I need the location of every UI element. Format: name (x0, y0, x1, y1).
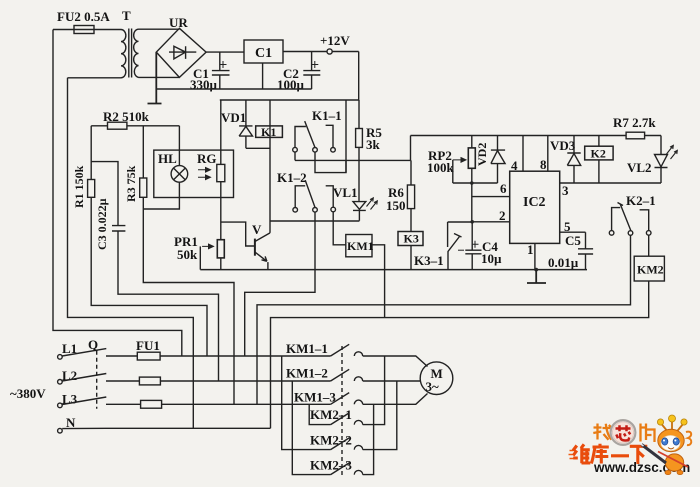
svg-text:HL: HL (158, 151, 177, 166)
wire top left to fuse (53, 29, 121, 31)
contact K1-2 (295, 180, 333, 207)
svg-text:4: 4 (511, 158, 518, 173)
svg-text:VL1: VL1 (333, 185, 358, 200)
wire left rail B (primary to N) (68, 78, 194, 429)
svg-text:KM1–2: KM1–2 (286, 366, 328, 381)
svg-text:100µ: 100µ (277, 77, 305, 92)
svg-text:T: T (122, 8, 131, 23)
svg-text:330µ: 330µ (190, 77, 218, 92)
resistor R2 (91, 125, 179, 127)
relay coil K3 (398, 232, 423, 246)
svg-text:~380V: ~380V (10, 386, 46, 401)
wire L3 to KM2-1 (309, 404, 330, 424)
relay coil K2 (598, 136, 600, 184)
svg-text:VD2: VD2 (475, 143, 489, 166)
regulator C1 box (244, 40, 283, 63)
diode VD2 (491, 136, 505, 184)
chars weikuyixia (red-orange) (573, 444, 647, 464)
wire primary bottom to rail B (68, 77, 122, 79)
wire L1 to KM2-2 (282, 356, 331, 450)
transformer T secondary winding (134, 29, 139, 77)
wire riser to timer rail (410, 136, 412, 161)
wire relay +12 rail (220, 99, 359, 101)
wire KM1-1 to motor (363, 356, 428, 367)
wire KM2 bottom elbow to N (271, 281, 649, 428)
svg-text:VD3: VD3 (550, 138, 576, 153)
light arrows to RG (198, 168, 211, 180)
svg-text:C3 0.022µ: C3 0.022µ (95, 198, 109, 250)
svg-text:KM1: KM1 (347, 239, 374, 253)
svg-text:50k: 50k (177, 247, 198, 262)
wire KM1-2 to motor (363, 380, 421, 382)
wire KM2-2 riser to KM1-2 (363, 381, 397, 450)
svg-text:RG: RG (197, 151, 217, 166)
wire timing column (471, 183, 473, 222)
potentiometer PR1 (217, 240, 224, 258)
svg-text:C1: C1 (255, 46, 272, 61)
fuse FU1-2 (139, 377, 160, 385)
wire PR1 wiper to ground rail (199, 246, 201, 269)
wire power supply bottom rail (156, 88, 311, 90)
photoresistor RG (217, 164, 225, 181)
svg-text:3~: 3~ (426, 379, 440, 394)
switch Q blade L2 (62, 374, 106, 382)
wire lamp top to R2 line (178, 126, 180, 166)
wire K1-1 left stub (294, 152, 296, 160)
resistor R7 (626, 132, 645, 139)
contactor coil KM1 (346, 235, 372, 257)
contact KM1-3 (331, 393, 363, 405)
wire RG/PR1 junction to base (221, 222, 255, 246)
box HL RG (154, 150, 234, 197)
link KM1 (dashed) (341, 346, 343, 406)
contactor coil KM2 (634, 256, 664, 281)
contact KM2-3 (331, 463, 363, 475)
transformer T primary winding (121, 30, 126, 78)
svg-text:K3–1: K3–1 (414, 253, 444, 268)
switch Q blade L3 (62, 397, 106, 405)
contact K2-1 (612, 203, 649, 232)
wire K2-1 mid elbow to L3 (257, 235, 631, 404)
svg-text:FU2 0.5A: FU2 0.5A (57, 9, 110, 24)
svg-text:R3 75k: R3 75k (124, 165, 138, 202)
wire L3 line (106, 403, 331, 405)
wire C3 top tap (91, 162, 118, 226)
diode VD3 (567, 136, 580, 184)
contact KM2-1 (331, 413, 363, 425)
node junction pin2/C4 (470, 220, 474, 224)
wire L2 to KM2-3 (292, 381, 330, 475)
wire K1-2 mid elbow to L1 (245, 212, 315, 356)
VL2 light arrows (667, 145, 678, 159)
svg-text:3: 3 (562, 183, 569, 198)
wire R2 left down to R1 (90, 126, 92, 180)
bridge rectifier UR (156, 28, 206, 77)
node junction RP2 bottom (470, 181, 474, 185)
wire KM1-3 to motor (363, 394, 428, 405)
transformer T core (129, 29, 132, 78)
wire rail to jog riser (345, 100, 347, 173)
svg-text:K3: K3 (404, 232, 419, 246)
contact KM1-2 (331, 369, 363, 381)
lamp HL (171, 166, 188, 183)
wire control ground rail (200, 269, 587, 271)
svg-text:KM2: KM2 (637, 263, 664, 277)
svg-text:K1: K1 (261, 125, 276, 139)
capacitor C3 0.022u (112, 226, 125, 231)
svg-text:K1–2: K1–2 (277, 170, 307, 185)
resistor R6 150 (410, 160, 412, 185)
wire KM2-1 riser to KM1-1 (363, 356, 385, 425)
wire VL1 cathode to collector (270, 220, 359, 222)
wire secondary bottom to bridge (139, 76, 180, 78)
wire R6 to K3 (410, 209, 412, 232)
svg-text:100k: 100k (427, 160, 455, 175)
wire KM1 right to N elbow (372, 245, 385, 318)
svg-text:1: 1 (527, 242, 534, 257)
wire secondary top to bridge (139, 28, 180, 30)
wire K1-1 mid jog (315, 152, 346, 173)
svg-text:R7 2.7k: R7 2.7k (613, 115, 656, 130)
link KM2 (dashed) (341, 415, 343, 476)
fuse FU1-1 (137, 352, 160, 360)
wire L1 line (106, 355, 331, 357)
contact KM2-2 (331, 438, 363, 450)
wire R3 bottom elbow to L3 (143, 197, 234, 404)
svg-text:6: 6 (500, 181, 507, 196)
ground (bridge) (148, 52, 162, 103)
node junction pin1/ground (534, 268, 538, 272)
wire RG bottom to PR1 (220, 182, 222, 240)
wire C3 bottom elbow to L2 (118, 231, 219, 381)
PR1 wiper arrow (202, 244, 213, 249)
svg-text:K1–1: K1–1 (312, 108, 342, 123)
wire regulator output to +12V (283, 51, 359, 53)
switch Q link (dashed) (96, 351, 98, 409)
resistor R1 150k (88, 180, 95, 198)
svg-text:150: 150 (386, 198, 406, 213)
wire RP2 wiper down (452, 160, 454, 183)
svg-text:8: 8 (540, 157, 547, 172)
wire KM2-3 riser to KM1-3 (363, 404, 374, 474)
fuse FU2 (74, 26, 94, 34)
svg-text:FU1: FU1 (136, 338, 160, 353)
resistor R5 3k (358, 100, 360, 129)
wire switched supply (y160) (295, 159, 411, 161)
wire PR1 bottom to ground rail (220, 258, 222, 270)
wire R2 right down to R3 (142, 126, 144, 178)
capacitor C4 10u (465, 222, 481, 270)
fuse FU1-3 (141, 400, 162, 408)
motor M (420, 362, 453, 395)
char zhao (orange) (593, 424, 611, 440)
magnifier lens (611, 420, 636, 445)
wire emitter to ground rail (267, 262, 269, 270)
VL1 light arrows (367, 198, 378, 210)
wire RP2/VD2 bottom bar (453, 182, 498, 184)
svg-text:K2–1: K2–1 (626, 193, 656, 208)
wire R5 to VL1 (358, 147, 360, 201)
switch Q blade L1 (62, 349, 106, 356)
char pian (orange) (641, 424, 655, 443)
contact K3-1 (448, 222, 462, 270)
svg-text:C5: C5 (565, 233, 581, 248)
svg-text:KM1–3: KM1–3 (294, 390, 336, 405)
svg-text:UR: UR (169, 15, 188, 30)
wire R1 bottom elbow to L1 (91, 197, 207, 356)
contact KM1-1 (331, 344, 363, 356)
wire N line (62, 427, 270, 429)
svg-text:Q: Q (88, 337, 98, 352)
wire lamp bottom to R3 column (143, 182, 179, 209)
svg-text:KM1–1: KM1–1 (286, 341, 328, 356)
watermark dzsc logo (569, 415, 692, 475)
svg-text:+12V: +12V (320, 33, 350, 48)
LED VL2 (655, 155, 668, 184)
svg-text:R1 150k: R1 150k (72, 165, 86, 208)
svg-text:3k: 3k (366, 137, 381, 152)
wire regulator ground pin (262, 63, 264, 89)
relay coil K1 (269, 100, 271, 221)
wire +12V drop to relay rail (358, 52, 360, 101)
svg-text:10µ: 10µ (481, 251, 502, 266)
ground (control) (527, 270, 546, 283)
capacitor C1 330u (212, 52, 230, 89)
svg-text:K2: K2 (591, 146, 606, 160)
LED VL1 (353, 202, 366, 221)
mascot (640, 415, 691, 475)
wire K2-1 right to KM2 (648, 235, 650, 256)
wire bridge + output to regulator (206, 51, 244, 53)
RP2 wiper arrow (453, 158, 466, 163)
wire L2 line (106, 380, 331, 382)
resistor R3 75k (140, 178, 147, 197)
svg-text:V: V (252, 222, 262, 237)
contact K1-1 (295, 121, 333, 147)
wire left rail A (FU2 to L1) (53, 30, 182, 357)
svg-text:N: N (66, 415, 76, 430)
timer IC2 (510, 171, 560, 243)
char xin (red in lens) (616, 425, 631, 440)
svg-text:2: 2 (499, 208, 506, 223)
speed dashes (569, 451, 574, 459)
capacitor C2 100u (303, 52, 320, 90)
capacitor C5 0.01u (578, 232, 593, 269)
diode VD1 (239, 100, 270, 148)
wire K3 bottom to ground rail (410, 246, 412, 270)
wire K1-2 right to KM1 coil (333, 212, 346, 245)
wire K3-1 top tap (448, 221, 472, 223)
transistor V (254, 239, 256, 256)
wire rail corner to VL2 (660, 136, 662, 155)
wire timer +12 rail (411, 135, 662, 137)
svg-text:VL2: VL2 (627, 160, 652, 175)
svg-text:VD1: VD1 (221, 110, 246, 125)
wire RG top to relay rail (220, 100, 222, 164)
svg-text:0.01µ: 0.01µ (548, 255, 579, 270)
svg-text:IC2: IC2 (523, 195, 546, 210)
potentiometer RP2 (471, 136, 473, 148)
